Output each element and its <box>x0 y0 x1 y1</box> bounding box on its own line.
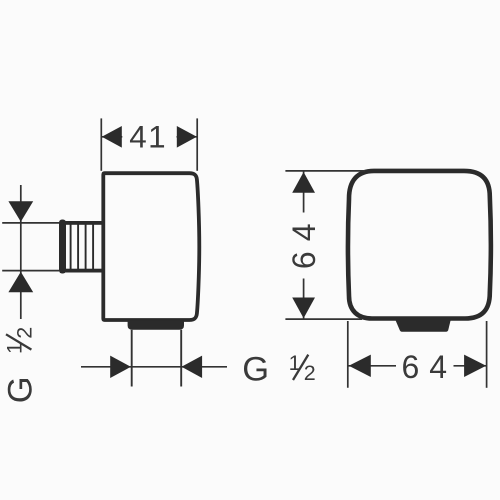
extension line thread bottom <box>2 270 59 272</box>
svg-text:41: 41 <box>129 120 167 155</box>
threaded nipple bottom bar <box>63 269 102 273</box>
arrow down (points to thread top) <box>8 201 33 222</box>
bottom outlet collar (filled) <box>128 321 184 330</box>
extension line left <box>100 118 102 170</box>
extension line right <box>196 118 198 170</box>
label 1/2 (rotated fraction) <box>3 327 37 354</box>
outlet pipe lines / extension lines <box>132 330 182 387</box>
arrow left (points left) <box>102 126 122 148</box>
svg-text:G: G <box>2 376 40 403</box>
arrow down <box>292 298 315 319</box>
extension/tick line top <box>285 170 365 172</box>
svg-text:64: 64 <box>286 214 322 270</box>
arrow (points right at left pipe line) <box>110 356 131 378</box>
dimension line vertical <box>20 185 22 319</box>
label 1/2 fraction <box>289 351 316 385</box>
arrow up (points to thread bottom) <box>8 272 33 293</box>
dimension line 41 <box>102 136 197 138</box>
arrow right <box>464 355 486 377</box>
threaded nipple cap <box>59 220 66 274</box>
label G <box>242 350 269 388</box>
body outline (side view of wall outlet) <box>103 173 199 320</box>
arrow up <box>292 172 315 193</box>
dimension line horizontal <box>81 366 227 368</box>
label 64 (rotated) <box>286 213 322 279</box>
label 41 <box>122 120 176 155</box>
threaded nipple top bar <box>63 221 102 225</box>
extension line right <box>486 321 488 388</box>
dimension line vertical <box>303 172 305 319</box>
dimension line horizontal <box>348 365 486 367</box>
svg-text:G: G <box>242 350 269 388</box>
arrow right (points right) <box>177 126 197 148</box>
arrow left <box>349 355 371 377</box>
arrow (points left at right pipe line) <box>182 356 203 378</box>
thread crest lines <box>71 224 94 270</box>
front outlet (filled trapezoid) <box>395 320 451 332</box>
svg-text:2: 2 <box>12 327 36 339</box>
extension line thread top <box>2 222 59 224</box>
label 64 <box>396 349 457 385</box>
svg-text:64: 64 <box>402 349 458 385</box>
extension/tick line bottom <box>285 318 362 320</box>
label G (rotated) <box>2 376 40 403</box>
svg-text:2: 2 <box>304 361 316 385</box>
front face outline (rounded squircle) <box>348 171 491 319</box>
extension line left <box>347 321 349 388</box>
